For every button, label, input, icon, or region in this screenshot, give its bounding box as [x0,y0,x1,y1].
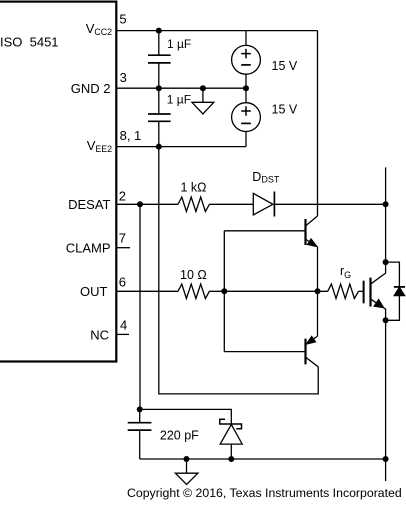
svg-text:1 kΩ: 1 kΩ [181,180,207,194]
svg-text:8, 1: 8, 1 [120,128,142,143]
svg-text:3: 3 [120,70,127,85]
svg-text:VCC2: VCC2 [86,21,112,37]
wire D3 branch top [386,262,400,287]
wire V1 bottom lead [245,74,247,88]
wire C3 node across to zener D2 [140,409,232,424]
svg-text:4: 4 [120,318,127,333]
diode D1 DDST [253,192,274,217]
svg-text:15 V: 15 V [272,103,298,117]
wire D3 branch bottom [386,296,400,321]
wire right rail lower segment [385,320,387,481]
wire rG to IGBT gate [359,290,364,292]
ground symbol 1 [192,102,214,114]
wire R1 to D1 anode [209,203,253,205]
diode D3 freewheel [394,287,405,296]
svg-text:1 µF: 1 µF [167,37,191,51]
wire GND2 run [116,87,246,89]
svg-text:VEE2: VEE2 [87,138,112,154]
transistor Q2 PNP [306,336,319,367]
svg-text:DESAT: DESAT [68,197,110,212]
svg-text:7: 7 [119,231,126,246]
svg-text:2: 2 [119,189,126,204]
wire VCC2 right vertical down to Q1 collector [317,31,319,216]
wire C1 top lead [158,31,160,56]
wire Q1 emitter to node [317,247,319,292]
wire Q2 base [224,351,305,353]
wire node to Q2 emitter [317,291,319,336]
wire C2 top lead [158,88,160,114]
resistor R2 10ohm zigzag [178,284,209,298]
svg-text:1 µF: 1 µF [167,93,191,107]
IC U1 ISO 5451 box [0,2,116,362]
svg-text:220 pF: 220 pF [160,428,199,442]
svg-text:ISO 5451: ISO 5451 [0,34,59,49]
svg-text:DDST: DDST [252,170,280,185]
wire C2 bottom lead [158,121,160,146]
wire V1 top lead [245,31,247,46]
wire C3 top lead [139,409,141,422]
wire Q1 base [224,230,305,232]
wire DESAT down to C3 node [139,204,141,409]
wire C1 bottom lead [158,63,160,88]
svg-text:Copyright © 2016, Texas Instru: Copyright © 2016, Texas Instruments Inco… [127,486,402,500]
capacitor C1 1uF plates [148,55,171,63]
source V2 15V [232,103,261,132]
svg-text:15 V: 15 V [272,59,298,73]
capacitor C2 1uF plates [148,114,171,121]
source V1 15V [232,45,261,74]
wire VEE2 down and across to Q2 collector [159,147,318,394]
wire ground stub 2 [186,459,188,473]
wire ground stub 1 [202,88,204,102]
svg-text:GND 2: GND 2 [71,81,111,96]
capacitor C3 220pF plates [128,423,152,430]
wire R2 to rG across [209,290,327,292]
ground symbol 2 [175,473,198,484]
svg-text:NC: NC [90,327,109,342]
zener diode D2 [220,419,242,444]
svg-text:6: 6 [119,274,126,289]
wire DESAT pin to R1 [116,203,178,205]
transistor Q3 IGBT [364,262,386,320]
resistor R1 1k zigzag [178,197,209,211]
resistor R3 rG zigzag [328,284,359,298]
wire C3 bottom lead to bottom rail [139,430,141,459]
wire VCC2 top run [116,30,318,32]
wire bottom ground rail [140,458,386,460]
wire V2 top lead [245,88,247,103]
transistor Q1 NPN [306,216,318,247]
svg-text:rG: rG [340,264,351,280]
svg-text:CLAMP: CLAMP [66,241,111,256]
wire OUT pin to R2 [116,290,178,292]
wire CLAMP stub [117,247,130,249]
wire D2 anode lead [230,444,232,459]
svg-text:OUT: OUT [80,284,108,299]
svg-text:10 Ω: 10 Ω [180,268,207,282]
wire D1 cathode to right rail [274,203,385,205]
wire V2 bottom lead [245,132,247,147]
wire NC stub [117,333,129,335]
wire base coupling vertical [223,231,225,352]
svg-text:5: 5 [119,11,126,26]
wire VEE2 run [116,146,246,148]
wire right rail upper segment [385,167,387,262]
